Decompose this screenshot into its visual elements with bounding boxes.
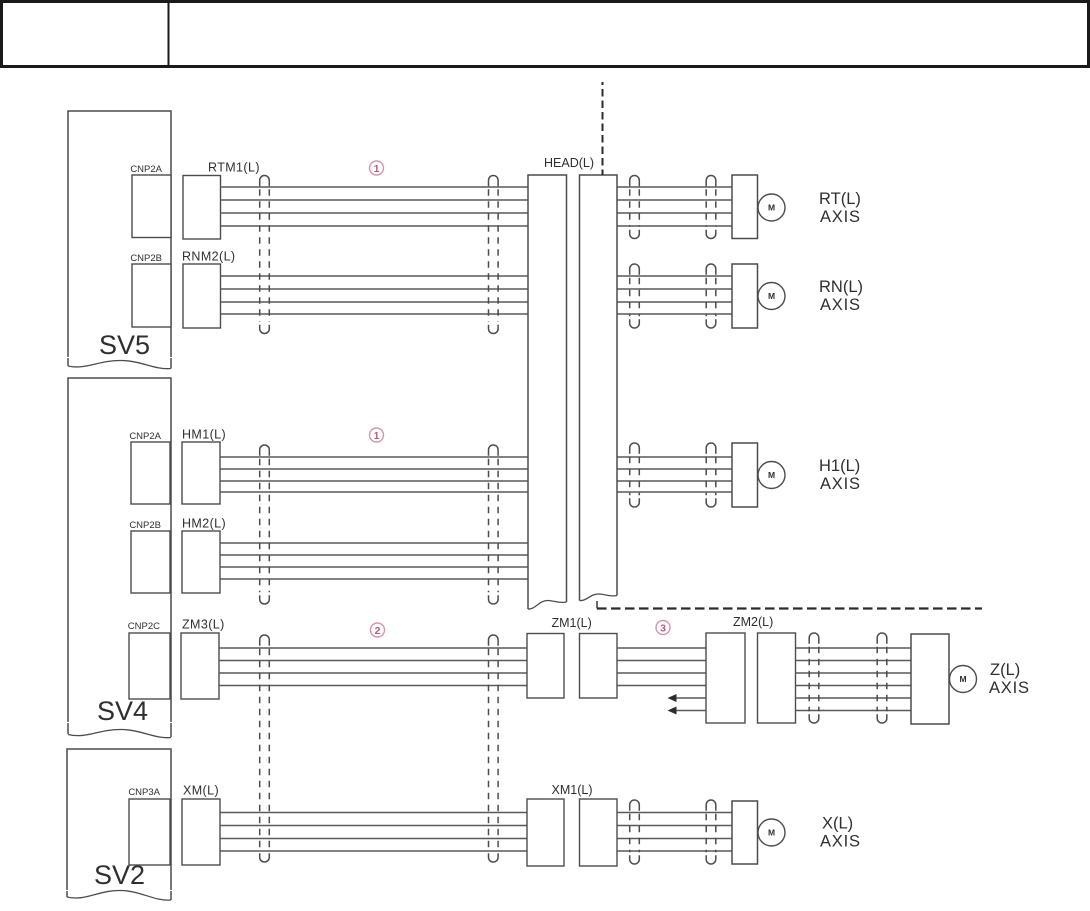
break (HEAD left bottom wavy): [528, 600, 567, 609]
motor connector X(L): [732, 801, 758, 864]
junction block ZM2(L) right: [758, 633, 796, 723]
cable clamp (H1 row, left): [630, 443, 640, 507]
node circled 1 (SV5 cable): [370, 161, 384, 175]
cable clamp (RT row, left): [630, 176, 640, 239]
motor connector RT(L): [732, 175, 758, 239]
svg-text:ZM3(L): ZM3(L): [182, 618, 225, 632]
motor M H1(L): [758, 462, 785, 489]
dashed boundary line (vertical): [602, 82, 604, 175]
connector HM2(L): [182, 531, 220, 593]
cable clamp (SV5 group, left): [260, 176, 270, 334]
svg-text:RN(L): RN(L): [819, 278, 863, 296]
break (HEAD right bottom wavy): [580, 594, 618, 601]
svg-text:AXIS: AXIS: [820, 475, 861, 493]
junction block ZM1(L) left: [527, 634, 564, 699]
connector CNP2B (SV4): [131, 531, 170, 593]
svg-text:RT(L): RT(L): [819, 190, 861, 208]
dashed boundary line (horizontal): [596, 601, 598, 609]
wire with arrow (incoming, lower): [668, 707, 707, 715]
wire bundle HM2(L) to HEAD(L): [220, 543, 528, 579]
title block table: [2, 1, 1089, 67]
wire bundle XM(L) to XM1(L): [220, 813, 527, 852]
motor M RN(L): [758, 283, 785, 310]
svg-text:M: M: [959, 674, 966, 684]
connector CNP2B (SV5): [132, 264, 171, 327]
cable clamp (Z/X group, right): [489, 635, 499, 862]
cable clamp (Z row, right): [877, 633, 887, 723]
junction block HEAD(L) left: [528, 175, 567, 609]
node circled 2 (Z cable): [371, 623, 385, 637]
svg-text:SV4: SV4: [97, 696, 148, 726]
svg-text:SV5: SV5: [99, 330, 150, 360]
connector CNP3A (SV2): [129, 799, 170, 865]
motor M X(L): [758, 819, 785, 846]
svg-text:RNM2(L): RNM2(L): [182, 250, 236, 264]
cable clamp (SV5 group, right): [489, 176, 499, 334]
junction block ZM2(L) left: [706, 633, 745, 723]
node circled 1 (SV4 cable): [370, 428, 384, 442]
junction block ZM1(L) right: [580, 634, 618, 699]
cable clamp (X row, right): [706, 800, 716, 864]
connector HM1(L): [182, 442, 220, 504]
svg-text:M: M: [768, 291, 775, 301]
svg-text:AXIS: AXIS: [820, 833, 861, 851]
svg-text:XM(L): XM(L): [183, 784, 219, 798]
node circled 3 (Z head cable): [656, 621, 670, 635]
wire bundle HEAD(L) to RN motor: [617, 276, 732, 314]
svg-text:CNP3A: CNP3A: [128, 787, 160, 798]
connector CNP2A (SV4): [131, 442, 170, 504]
motor M Z(L): [950, 666, 977, 693]
break (SV4 bottom wavy edge): [68, 729, 171, 737]
svg-text:RTM1(L): RTM1(L): [208, 161, 260, 175]
svg-text:1: 1: [374, 163, 380, 175]
svg-text:CNP2A: CNP2A: [130, 164, 162, 175]
cable clamp (Z row, left): [809, 633, 819, 723]
svg-text:CNP2B: CNP2B: [130, 253, 162, 264]
connector XM(L): [182, 799, 220, 865]
break (SV5 bottom wavy edge): [68, 360, 171, 368]
break (SV2 bottom wavy edge): [67, 890, 171, 900]
svg-text:ZM2(L): ZM2(L): [733, 615, 773, 629]
cable clamp (H1 row, right): [706, 443, 716, 507]
svg-text:CNP2C: CNP2C: [128, 621, 160, 632]
servo unit SV5 body: [68, 111, 171, 366]
svg-text:AXIS: AXIS: [989, 679, 1030, 697]
wire bundle ZM1(L) to ZM2(L): [617, 648, 706, 686]
wire bundle HEAD(L) to RT motor: [617, 187, 732, 226]
svg-text:3: 3: [660, 622, 666, 634]
connector RNM2(L): [183, 264, 221, 328]
junction block XM1(L) left: [527, 799, 564, 866]
cable clamp (X row, left): [630, 800, 640, 864]
svg-text:HM1(L): HM1(L): [182, 428, 226, 442]
svg-text:Z(L): Z(L): [990, 661, 1020, 679]
motor connector H1(L): [732, 443, 758, 507]
svg-text:AXIS: AXIS: [820, 208, 861, 226]
cable clamp (RN row, left): [630, 264, 640, 328]
wire bundle HEAD(L) to H1 motor: [617, 457, 732, 492]
connector ZM3(L): [181, 633, 219, 699]
wire bundle RTM1(L) to HEAD(L): [221, 187, 529, 226]
svg-text:CNP2A: CNP2A: [129, 431, 161, 442]
svg-text:2: 2: [375, 625, 381, 637]
wire bundle XM1(L) to X motor: [617, 813, 732, 852]
cable clamp (RN row, right): [706, 264, 716, 328]
svg-text:CNP2B: CNP2B: [129, 520, 161, 531]
motor M RT(L): [758, 194, 785, 221]
connector CNP2C (SV4): [129, 633, 170, 699]
servo unit SV4 body: [68, 378, 171, 729]
cable clamp (SV4 group, left): [260, 445, 270, 604]
cable clamp (RT row, right): [706, 176, 716, 239]
connector RTM1(L): [183, 176, 221, 240]
motor connector RN(L): [732, 264, 758, 328]
wire bundle ZM2(L) to Z motor: [796, 648, 912, 711]
wire bundle HM1(L) to HEAD(L): [220, 457, 528, 492]
motor connector Z(L): [911, 634, 949, 724]
cable clamp (Z/X group, left): [260, 635, 270, 862]
svg-text:X(L): X(L): [822, 815, 853, 833]
junction block XM1(L) right: [580, 799, 618, 866]
wire with arrow (incoming, upper): [668, 694, 707, 702]
svg-text:AXIS: AXIS: [820, 296, 861, 314]
svg-text:1: 1: [374, 430, 380, 442]
wire bundle RNM2(L) to HEAD(L): [221, 276, 529, 314]
wire bundle ZM3(L) to ZM1(L): [219, 648, 527, 686]
svg-text:ZM1(L): ZM1(L): [552, 616, 592, 630]
svg-text:XM1(L): XM1(L): [552, 783, 593, 797]
junction block HEAD(L) right: [580, 175, 618, 601]
svg-text:M: M: [768, 203, 775, 213]
svg-text:H1(L): H1(L): [819, 457, 860, 475]
cable clamp (SV4 group, right): [489, 445, 499, 604]
svg-text:HM2(L): HM2(L): [182, 517, 226, 531]
svg-text:M: M: [768, 470, 775, 480]
svg-text:M: M: [768, 828, 775, 838]
svg-text:HEAD(L): HEAD(L): [544, 156, 594, 170]
connector CNP2A (SV5): [132, 175, 171, 238]
servo unit SV2 body: [67, 749, 171, 897]
